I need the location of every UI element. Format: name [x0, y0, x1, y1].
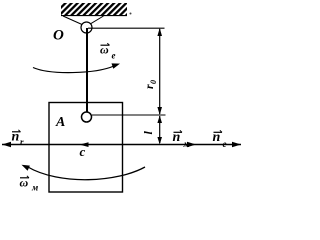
svg-text:l: l	[141, 131, 155, 135]
svg-text:e: e	[112, 51, 116, 61]
svg-text:м: м	[31, 183, 38, 193]
svg-text:ω: ω	[100, 43, 109, 57]
svg-text:r: r	[20, 137, 24, 147]
svg-text:м: м	[183, 139, 190, 149]
svg-text:c: c	[80, 144, 86, 159]
svg-text:O: O	[53, 28, 64, 44]
svg-text:0: 0	[149, 80, 158, 84]
svg-text:e: e	[223, 139, 227, 149]
svg-text:A: A	[55, 115, 65, 130]
